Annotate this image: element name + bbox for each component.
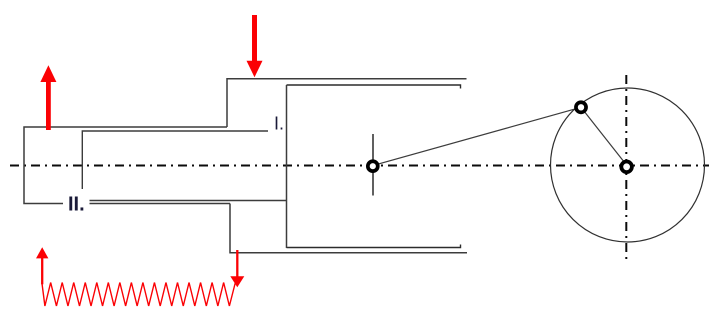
piston face [286, 85, 288, 248]
force arrow down (on cylinder I) [247, 15, 263, 77]
svg-text:I.: I. [274, 114, 284, 134]
spring [42, 280, 236, 306]
slider pin [368, 161, 378, 171]
cylinder I outer outline bottom [230, 204, 467, 253]
rod II inner outline [82, 131, 286, 201]
crank center pin [621, 162, 632, 173]
crank pin [576, 102, 586, 112]
svg-text:II.: II. [68, 194, 85, 216]
rod II outer outline [24, 127, 230, 204]
horizontal centerline [10, 165, 709, 167]
cylinder I inner wall top [287, 85, 461, 89]
cylinder I inner wall bottom [287, 245, 461, 248]
crank circle [551, 88, 705, 242]
small up arrow at spring left end [36, 247, 48, 284]
small down arrow at spring right end [230, 250, 244, 287]
force arrow up (on rod II) [40, 65, 56, 130]
connecting rod [373, 107, 581, 165]
vertical centerline of crank [625, 75, 627, 260]
crank arm [581, 107, 627, 165]
cylinder I outer outline top [227, 79, 467, 127]
slider pin axis line [372, 134, 374, 196]
